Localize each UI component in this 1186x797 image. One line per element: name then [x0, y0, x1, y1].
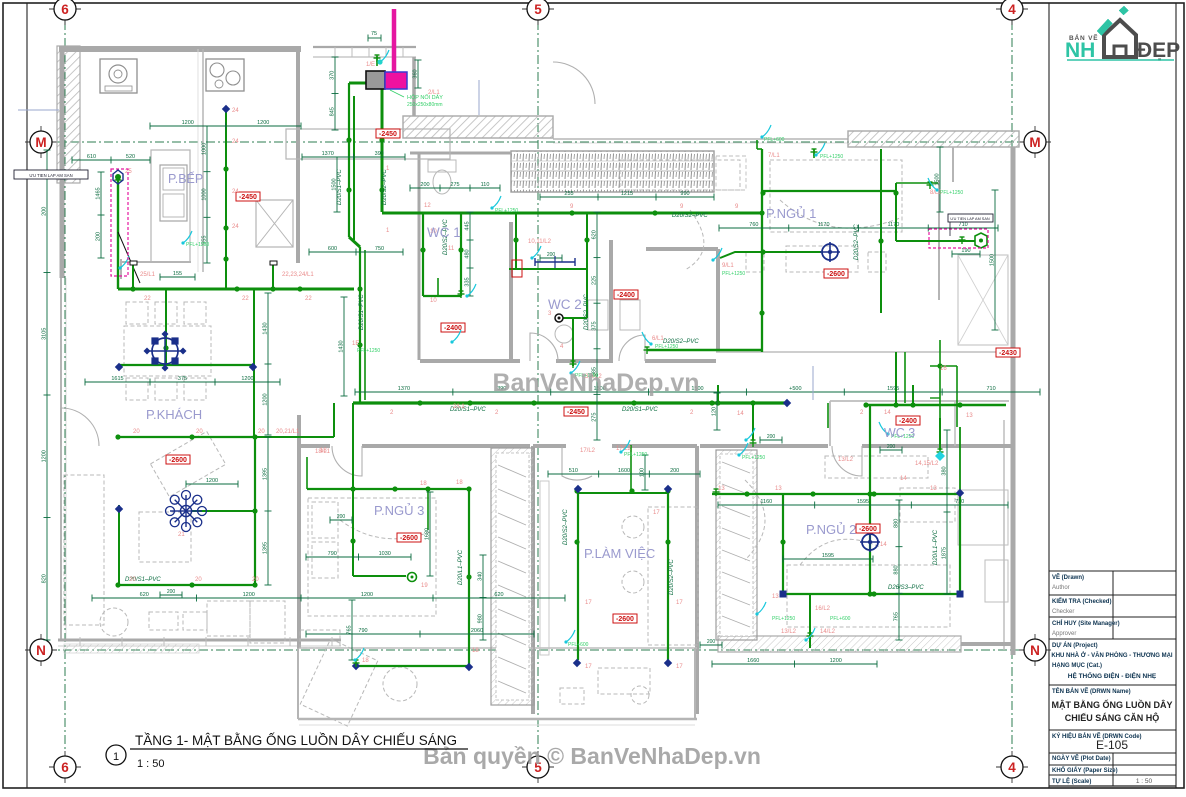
svg-text:1200: 1200: [182, 120, 194, 126]
svg-text:340: 340: [478, 572, 484, 581]
svg-text:16/L2: 16/L2: [815, 606, 831, 612]
svg-text:D20/S1–PVC: D20/S1–PVC: [622, 407, 658, 413]
svg-text:880: 880: [894, 519, 900, 528]
svg-text:765: 765: [347, 625, 353, 634]
svg-text:PFL+600: PFL+600: [830, 616, 851, 622]
svg-text:D20/L1–PVC: D20/L1–PVC: [458, 549, 464, 585]
svg-text:225: 225: [592, 276, 598, 285]
svg-text:710: 710: [986, 386, 995, 392]
svg-text:1660: 1660: [747, 658, 759, 664]
svg-text:1370: 1370: [322, 151, 334, 157]
svg-text:275: 275: [592, 413, 598, 422]
svg-text:390: 390: [375, 151, 384, 157]
svg-text:1595: 1595: [822, 553, 834, 559]
svg-text:17: 17: [585, 664, 592, 670]
svg-text:KHỔ GIẤY (Paper Size): KHỔ GIẤY (Paper Size): [1052, 767, 1118, 774]
svg-text:200: 200: [337, 514, 346, 520]
svg-text:1680: 1680: [425, 528, 431, 540]
svg-text:1465: 1465: [96, 187, 102, 199]
svg-text:-2600: -2600: [616, 616, 634, 623]
svg-text:11: 11: [448, 246, 455, 252]
svg-text:18: 18: [420, 481, 427, 487]
svg-text:20: 20: [252, 577, 259, 583]
svg-text:D20/L1–PVC: D20/L1–PVC: [933, 529, 939, 565]
svg-text:M: M: [35, 135, 46, 150]
svg-text:120: 120: [712, 407, 718, 416]
svg-text:24: 24: [232, 189, 239, 195]
svg-text:100: 100: [640, 468, 646, 477]
svg-text:CHỈ HUY (Site Manager): CHỈ HUY (Site Manager): [1052, 620, 1120, 627]
svg-text:24: 24: [232, 108, 239, 114]
svg-text:N: N: [36, 643, 46, 658]
svg-text:25: 25: [125, 169, 132, 175]
svg-text:PFL+1250: PFL+1250: [357, 348, 380, 354]
svg-text:-2600: -2600: [169, 457, 187, 464]
svg-text:760: 760: [749, 222, 758, 228]
svg-text:P.NGỦ 3: P.NGỦ 3: [374, 503, 424, 518]
svg-text:200: 200: [547, 252, 556, 258]
svg-text:4: 4: [1008, 760, 1016, 775]
svg-text:14: 14: [880, 542, 887, 548]
svg-text:25/L1: 25/L1: [140, 272, 156, 278]
svg-text:980: 980: [478, 614, 484, 623]
svg-text:790: 790: [328, 551, 337, 557]
svg-text:1615: 1615: [111, 376, 123, 382]
svg-text:370: 370: [330, 71, 336, 80]
svg-text:255: 255: [564, 191, 573, 197]
svg-text:17/L2: 17/L2: [580, 448, 596, 454]
svg-text:13/L2: 13/L2: [781, 629, 797, 635]
svg-text:P.LÀM VIỆC: P.LÀM VIỆC: [584, 546, 655, 561]
svg-text:13: 13: [718, 486, 725, 492]
svg-text:PFL+1250: PFL+1250: [742, 455, 765, 461]
svg-text:13: 13: [772, 594, 779, 600]
svg-text:1600: 1600: [618, 468, 630, 474]
svg-text:10: 10: [430, 298, 437, 304]
svg-text:24: 24: [232, 224, 239, 230]
svg-text:PFL+1250: PFL+1250: [772, 616, 795, 622]
svg-text:190: 190: [961, 248, 970, 254]
svg-text:24: 24: [232, 139, 239, 145]
svg-text:1500: 1500: [935, 173, 941, 185]
svg-text:2/L1: 2/L1: [453, 404, 465, 410]
svg-text:KHU NHÀ Ở - VĂN PHÒNG - THƯƠNG: KHU NHÀ Ở - VĂN PHÒNG - THƯƠNG MẠI: [1051, 651, 1173, 659]
svg-text:610: 610: [87, 154, 96, 160]
svg-text:13: 13: [775, 486, 782, 492]
svg-text:KIỂM TRA (Checked): KIỂM TRA (Checked): [1052, 598, 1111, 605]
svg-text:6: 6: [61, 2, 69, 17]
svg-text:PFL+1250: PFL+1250: [940, 190, 963, 196]
svg-text:N: N: [1030, 643, 1040, 658]
svg-text:PFL+1250: PFL+1250: [722, 271, 745, 277]
svg-text:620: 620: [592, 230, 598, 239]
svg-text:D20/S2–PVC: D20/S2–PVC: [563, 509, 569, 545]
svg-text:PFL+1250: PFL+1250: [495, 208, 518, 214]
svg-text:CHIẾU SÁNG CĂN HỘ: CHIẾU SÁNG CĂN HỘ: [1065, 712, 1160, 723]
svg-text:Bản quyền © BanVeNhaDep.vn: Bản quyền © BanVeNhaDep.vn: [423, 743, 761, 769]
svg-text:14,15/L2: 14,15/L2: [915, 461, 939, 467]
svg-text:PFL+600: PFL+600: [764, 137, 785, 143]
svg-text:TỰ LỆ (Scale): TỰ LỆ (Scale): [1052, 777, 1091, 785]
svg-text:1200: 1200: [361, 592, 373, 598]
svg-text:480: 480: [465, 249, 471, 258]
svg-text:880: 880: [894, 565, 900, 574]
svg-text:1430: 1430: [263, 322, 269, 334]
svg-text:D20/S1–PVC: D20/S1–PVC: [359, 294, 365, 330]
svg-text:110: 110: [481, 182, 490, 188]
svg-text:710: 710: [959, 222, 968, 228]
svg-text:1595: 1595: [887, 386, 899, 392]
svg-text:6/L1: 6/L1: [652, 336, 664, 342]
svg-text:WC 2: WC 2: [548, 297, 582, 312]
svg-text:22: 22: [242, 296, 249, 302]
svg-text:820: 820: [42, 574, 48, 583]
svg-text:765: 765: [894, 612, 900, 621]
svg-text:PFL+600: PFL+600: [568, 642, 589, 648]
svg-text:1395: 1395: [263, 468, 269, 480]
svg-text:PFL+1250: PFL+1250: [186, 242, 209, 248]
svg-text:E-105: E-105: [1096, 738, 1128, 752]
svg-text:200: 200: [887, 444, 896, 450]
svg-text:14: 14: [884, 410, 891, 416]
svg-text:-2600: -2600: [859, 526, 877, 533]
svg-text:990: 990: [680, 191, 689, 197]
svg-text:P.BẾP: P.BẾP: [168, 171, 203, 186]
svg-text:200: 200: [670, 468, 679, 474]
svg-text:380: 380: [942, 466, 948, 475]
svg-text:14: 14: [737, 411, 744, 417]
svg-text:ĐẸP: ĐẸP: [1137, 39, 1180, 62]
svg-text:WC 3: WC 3: [884, 426, 915, 440]
svg-text:9/L1: 9/L1: [722, 263, 734, 269]
svg-text:HẠNG MỤC (Cat.): HẠNG MỤC (Cat.): [1052, 663, 1102, 669]
svg-text:21: 21: [178, 532, 185, 538]
svg-text:-2450: -2450: [239, 194, 257, 201]
svg-text:200: 200: [420, 182, 429, 188]
svg-text:18: 18: [362, 658, 369, 664]
svg-text:18: 18: [456, 480, 463, 486]
svg-text:Approver: Approver: [1052, 631, 1076, 637]
svg-text:1395: 1395: [263, 542, 269, 554]
svg-text:-2430: -2430: [999, 350, 1017, 357]
svg-text:200: 200: [707, 639, 716, 645]
svg-text:1: 1: [113, 751, 119, 763]
svg-text:Author: Author: [1052, 585, 1070, 591]
svg-text:20: 20: [196, 429, 203, 435]
svg-text:M: M: [1029, 135, 1040, 150]
svg-text:1200: 1200: [263, 393, 269, 405]
svg-text:1430: 1430: [339, 340, 345, 352]
svg-text:1170: 1170: [887, 222, 899, 228]
svg-text:-2450: -2450: [379, 131, 397, 138]
svg-text:1E: 1E: [352, 341, 359, 347]
svg-text:VẼ (Drawn): VẼ (Drawn): [1052, 574, 1084, 581]
svg-text:200: 200: [167, 589, 176, 595]
svg-text:20: 20: [195, 577, 202, 583]
svg-text:620: 620: [494, 592, 503, 598]
svg-text:12: 12: [424, 203, 431, 209]
svg-text:D26/S3–PVC: D26/S3–PVC: [888, 585, 924, 591]
svg-text:1370: 1370: [398, 386, 410, 392]
svg-text:360: 360: [413, 69, 419, 78]
svg-text:D20/S2–PVC: D20/S2–PVC: [672, 213, 708, 219]
svg-text:1200: 1200: [257, 120, 269, 126]
svg-text:620: 620: [140, 592, 149, 598]
svg-text:22: 22: [144, 296, 151, 302]
svg-text:D20/S2–PVC: D20/S2–PVC: [584, 294, 590, 330]
svg-text:520: 520: [126, 154, 135, 160]
svg-text:4: 4: [1008, 2, 1016, 17]
svg-text:P.NGỦ 1: P.NGỦ 1: [766, 206, 816, 221]
svg-text:1160: 1160: [760, 499, 772, 505]
svg-text:DỰ ÁN (Project): DỰ ÁN (Project): [1052, 642, 1098, 649]
svg-text:HỘP NỐI DÂY: HỘP NỐI DÂY: [407, 94, 443, 101]
svg-text:200: 200: [96, 232, 102, 241]
svg-text:845: 845: [330, 107, 336, 116]
svg-text:-2400: -2400: [444, 325, 462, 332]
svg-text:1 : 50: 1 : 50: [1136, 778, 1153, 785]
svg-text:+500: +500: [789, 386, 801, 392]
svg-text:PFL+1250: PFL+1250: [655, 344, 678, 350]
svg-text:WC 1: WC 1: [427, 225, 461, 240]
svg-text:13: 13: [930, 486, 937, 492]
svg-text:PFL+1250: PFL+1250: [624, 452, 647, 458]
svg-text:D20/S2–PVC: D20/S2–PVC: [854, 224, 860, 260]
svg-text:TẦNG 1- MẬT BẰNG ỐNG LUỒN DÂY: TẦNG 1- MẬT BẰNG ỐNG LUỒN DÂY CHIẾU SÁNG: [135, 733, 457, 748]
svg-text:ƯU TIEN LAP AM SAN: ƯU TIEN LAP AM SAN: [29, 173, 72, 178]
svg-text:275: 275: [450, 182, 459, 188]
svg-text:D20/S2–PVC: D20/S2–PVC: [669, 559, 675, 595]
svg-text:1200: 1200: [241, 376, 253, 382]
svg-text:14: 14: [900, 476, 907, 482]
svg-text:510: 510: [569, 468, 578, 474]
svg-text:1200: 1200: [830, 658, 842, 664]
svg-text:22,23,24/L1: 22,23,24/L1: [282, 272, 314, 278]
svg-text:16: 16: [940, 366, 947, 372]
svg-text:1170: 1170: [818, 222, 830, 228]
svg-text:375: 375: [592, 321, 598, 330]
svg-text:17: 17: [585, 600, 592, 606]
svg-text:17: 17: [676, 664, 683, 670]
svg-text:3105: 3105: [42, 328, 48, 340]
svg-text:5: 5: [534, 2, 542, 17]
svg-text:1000: 1000: [202, 143, 208, 155]
svg-text:P.KHÁCH: P.KHÁCH: [146, 407, 202, 422]
svg-text:200: 200: [767, 434, 776, 440]
svg-text:TÊN BẢN VẼ (DRWN Name): TÊN BẢN VẼ (DRWN Name): [1052, 687, 1131, 695]
svg-text:22: 22: [305, 296, 312, 302]
svg-text:19: 19: [421, 583, 428, 589]
svg-text:600: 600: [328, 246, 337, 252]
svg-text:-2400: -2400: [617, 292, 635, 299]
svg-text:NH: NH: [1065, 39, 1095, 62]
svg-text:20: 20: [129, 577, 136, 583]
svg-text:-2400: -2400: [899, 418, 917, 425]
svg-text:1 : 50: 1 : 50: [137, 758, 165, 770]
svg-text:18/L1: 18/L1: [315, 449, 331, 455]
svg-text:MẬT BẰNG ỐNG LUỒN DÂY: MẬT BẰNG ỐNG LUỒN DÂY: [1052, 699, 1173, 710]
svg-text:2060: 2060: [471, 628, 483, 634]
svg-text:250x250x80mm: 250x250x80mm: [407, 102, 443, 108]
svg-text:1500: 1500: [990, 254, 996, 266]
svg-text:P.NGỦ 2: P.NGỦ 2: [806, 522, 856, 537]
svg-text:D20/S2–PVC: D20/S2–PVC: [382, 169, 388, 205]
svg-text:17: 17: [653, 510, 660, 516]
svg-text:6: 6: [61, 760, 69, 775]
svg-text:13/L2: 13/L2: [838, 457, 854, 463]
svg-text:1200: 1200: [243, 592, 255, 598]
svg-text:155: 155: [173, 271, 182, 277]
svg-text:BanVeNhaDep.vn: BanVeNhaDep.vn: [492, 369, 699, 397]
svg-text:Checker: Checker: [1052, 609, 1074, 615]
svg-text:-2600: -2600: [400, 535, 418, 542]
svg-text:1200: 1200: [42, 450, 48, 462]
svg-text:17: 17: [676, 600, 683, 606]
svg-text:1215: 1215: [621, 191, 633, 197]
svg-text:335: 335: [465, 277, 471, 286]
svg-text:445: 445: [465, 221, 471, 230]
svg-text:-2450: -2450: [567, 409, 585, 416]
svg-text:14/L2: 14/L2: [820, 629, 836, 635]
svg-text:D20/S1–PVC: D20/S1–PVC: [337, 169, 343, 205]
svg-text:1030: 1030: [379, 551, 391, 557]
svg-text:-2600: -2600: [827, 271, 845, 278]
svg-text:1000: 1000: [202, 188, 208, 200]
svg-text:NGÀY VẼ (Plot Date): NGÀY VẼ (Plot Date): [1052, 755, 1111, 762]
svg-text:1595: 1595: [857, 499, 869, 505]
svg-text:PFL+1250: PFL+1250: [820, 154, 843, 160]
svg-text:1200: 1200: [206, 478, 218, 484]
svg-text:20,21/L1: 20,21/L1: [276, 429, 300, 435]
svg-text:20: 20: [258, 429, 265, 435]
svg-text:13: 13: [966, 413, 973, 419]
svg-text:20: 20: [133, 429, 140, 435]
svg-text:790: 790: [358, 628, 367, 634]
svg-text:750: 750: [375, 246, 384, 252]
svg-text:7/L1: 7/L1: [768, 153, 780, 159]
svg-text:375: 375: [178, 376, 187, 382]
svg-text:10,11/L2: 10,11/L2: [528, 239, 552, 245]
svg-text:ƯU TIEN LAP AM SAN: ƯU TIEN LAP AM SAN: [950, 217, 989, 221]
svg-text:1/E: 1/E: [366, 62, 375, 68]
svg-text:1875: 1875: [942, 547, 948, 559]
svg-text:200: 200: [42, 207, 48, 216]
svg-text:710: 710: [955, 499, 964, 505]
svg-text:75: 75: [371, 31, 377, 37]
svg-text:18: 18: [472, 648, 479, 654]
